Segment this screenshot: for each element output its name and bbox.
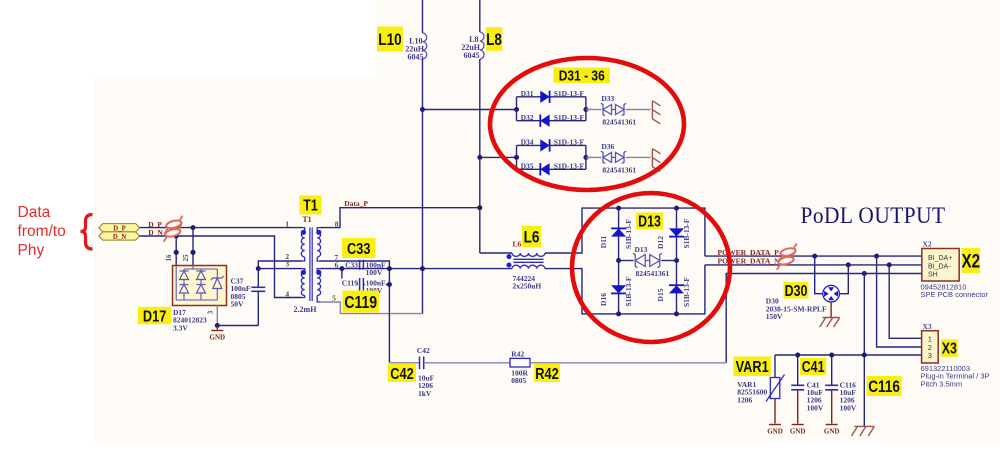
svg-text:X2: X2	[923, 240, 932, 249]
inductor L10	[423, 33, 427, 59]
svg-text:50V: 50V	[231, 300, 245, 309]
connector X3 box	[922, 331, 939, 363]
svg-text:C116: C116	[868, 378, 900, 397]
wire	[530, 362, 726, 364]
node junction	[387, 282, 392, 287]
wire pin7	[320, 261, 390, 363]
svg-text:L6: L6	[524, 228, 540, 247]
wire	[797, 355, 799, 385]
node junction	[829, 353, 834, 358]
node junction	[674, 311, 679, 316]
node junction	[339, 266, 344, 271]
svg-text:100V: 100V	[366, 268, 383, 277]
wire pin3	[258, 268, 302, 270]
node junction	[874, 254, 879, 259]
svg-text:16: 16	[165, 254, 173, 262]
svg-text:R42: R42	[511, 349, 524, 358]
wire to X3 pin 2	[877, 256, 922, 347]
red ellipse D31-36	[490, 58, 684, 190]
wire POWER_DATA_N	[705, 264, 922, 266]
ground GND	[769, 424, 781, 426]
connector flag D_P	[99, 224, 140, 232]
svg-text:Data_P: Data_P	[344, 199, 368, 208]
D17 internal diode	[180, 285, 189, 294]
wire	[216, 326, 218, 330]
label D17	[138, 307, 171, 324]
svg-text:T1: T1	[303, 196, 318, 214]
node junction	[583, 155, 588, 160]
svg-text:VAR1: VAR1	[736, 359, 769, 377]
label L8	[486, 27, 503, 51]
D17 internal zener diode	[213, 278, 222, 289]
svg-text:Phy: Phy	[18, 242, 45, 259]
label X3	[941, 339, 958, 357]
wire right rail	[676, 208, 678, 314]
wire D_N	[140, 236, 303, 298]
label R42	[534, 364, 560, 382]
wire	[863, 274, 865, 427]
pin 3 wire	[216, 306, 218, 326]
svg-text:L6: L6	[513, 240, 522, 249]
diode D32	[540, 115, 549, 127]
svg-text:C42: C42	[390, 366, 413, 384]
chassis ground	[823, 317, 840, 319]
polarity dot	[507, 254, 512, 259]
svg-text:GND: GND	[824, 428, 840, 436]
svg-text:S1D-13-F: S1D-13-F	[554, 89, 585, 98]
capacitor C42	[419, 357, 421, 370]
svg-text:824541361: 824541361	[602, 118, 636, 127]
svg-text:1206: 1206	[737, 395, 752, 404]
svg-text:C33: C33	[347, 241, 370, 259]
twisted pair marker	[161, 224, 185, 242]
polarity dot	[507, 263, 512, 268]
wire	[389, 362, 419, 364]
diode D15	[669, 285, 684, 293]
node junction	[420, 266, 425, 271]
node junction	[215, 323, 220, 328]
wire loop rails	[516, 145, 518, 169]
wire	[586, 109, 602, 111]
wire POWER_DATA_P	[705, 255, 922, 257]
node junction	[616, 258, 621, 263]
transformer T1	[302, 228, 305, 232]
svg-text:C33: C33	[345, 260, 358, 269]
svg-text:GND: GND	[790, 428, 806, 436]
svg-text:T1: T1	[302, 215, 311, 224]
label L10	[377, 27, 403, 52]
wire pin5 jog	[320, 302, 423, 314]
svg-text:D30: D30	[785, 281, 808, 299]
wire loop rails	[516, 97, 518, 121]
svg-text:X3: X3	[923, 322, 932, 331]
ground GND	[211, 330, 223, 332]
node junction	[862, 271, 867, 276]
node junction	[846, 262, 851, 267]
chassis ground	[651, 101, 653, 119]
svg-text:D13: D13	[638, 212, 661, 230]
svg-text:S1B-13-F: S1B-13-F	[682, 277, 691, 307]
polarity dot	[301, 270, 306, 275]
svg-text:1kV: 1kV	[418, 389, 432, 398]
inductor L8	[480, 32, 484, 59]
D17 internal wires	[175, 266, 177, 301]
D17 internal diode	[180, 271, 189, 280]
node junction	[256, 266, 261, 271]
twisted pair marker	[776, 243, 800, 261]
chassis ground	[651, 149, 653, 167]
svg-text:S1D-13-F: S1D-13-F	[554, 162, 585, 171]
node junction	[616, 311, 621, 316]
wire	[830, 302, 832, 318]
chassis ground	[854, 425, 874, 427]
wire	[831, 355, 833, 385]
label D13	[636, 213, 663, 230]
resistor R42	[510, 358, 530, 367]
label C119	[343, 291, 380, 313]
svg-text:6045: 6045	[464, 51, 480, 60]
diode D11	[611, 228, 626, 236]
wire	[839, 265, 848, 294]
twisted pair marker	[774, 252, 798, 270]
red brace	[81, 215, 93, 250]
wire pin8 / Data_P	[320, 208, 480, 228]
wire	[257, 269, 259, 287]
svg-text:PoDL OUTPUT: PoDL OUTPUT	[801, 202, 946, 228]
pin dot 2/5	[190, 250, 195, 255]
svg-text:150V: 150V	[766, 312, 783, 321]
svg-text:C42: C42	[417, 346, 430, 355]
wire	[479, 0, 481, 32]
node junction	[387, 266, 392, 271]
svg-text:100V: 100V	[807, 403, 824, 412]
wire	[422, 0, 424, 33]
red ellipse D13	[572, 193, 730, 342]
svg-text:L10: L10	[378, 31, 401, 50]
TVS diode D33	[603, 105, 612, 115]
svg-text:D32: D32	[521, 113, 534, 122]
wire	[626, 109, 651, 111]
svg-text:R42: R42	[535, 366, 558, 384]
svg-text:D31 - 36: D31 - 36	[559, 67, 605, 84]
node junction L8 feed	[477, 155, 482, 160]
node junction	[812, 254, 817, 259]
svg-text:GND: GND	[767, 428, 783, 436]
svg-text:824541361: 824541361	[602, 165, 636, 174]
svg-text:4: 4	[285, 290, 289, 299]
svg-text:D36: D36	[601, 142, 614, 151]
pin dot 1/6	[174, 250, 179, 255]
diode D34	[540, 139, 549, 151]
svg-text:SPE PCB connector: SPE PCB connector	[921, 290, 989, 299]
wire left rail	[618, 208, 620, 314]
wire	[797, 390, 799, 424]
D17 internal diode	[197, 271, 206, 280]
label D30	[784, 282, 809, 299]
schematic background	[375, 0, 1000, 443]
wire	[424, 362, 510, 364]
svg-text:S1B-13-F: S1B-13-F	[624, 276, 633, 306]
polarity dot	[316, 230, 321, 235]
choke core	[514, 258, 544, 260]
diode D35	[540, 163, 549, 175]
node junction L10 feed	[420, 107, 425, 112]
connector X2 box	[922, 249, 959, 282]
TVS diode D36	[603, 152, 612, 162]
choke L6 bottom winding	[512, 265, 545, 268]
wire SH	[726, 274, 922, 363]
wire	[479, 59, 481, 253]
node junction	[795, 353, 800, 358]
polarity dot	[301, 230, 306, 235]
svg-text:3: 3	[285, 260, 289, 269]
svg-text:GND: GND	[210, 334, 226, 342]
wire	[626, 156, 651, 158]
label C41	[800, 358, 826, 375]
wire	[175, 236, 177, 266]
node junction	[174, 234, 179, 239]
wire D_P	[140, 227, 303, 229]
svg-text:D17: D17	[143, 308, 166, 326]
wire	[422, 59, 424, 314]
svg-text:S1B-13-F: S1B-13-F	[682, 218, 691, 248]
svg-text:25: 25	[182, 254, 190, 262]
svg-text:D34: D34	[521, 138, 534, 147]
diode D12	[669, 228, 684, 236]
ESD array D17 box	[173, 266, 227, 306]
wire	[815, 256, 823, 294]
node junction	[191, 225, 196, 230]
svg-text:100V: 100V	[840, 403, 857, 412]
svg-text:SH: SH	[928, 272, 938, 279]
svg-text:3.3V: 3.3V	[173, 323, 188, 332]
wire ground rail	[775, 354, 922, 356]
svg-text:D35: D35	[521, 162, 534, 171]
node junction	[887, 262, 892, 267]
wire	[192, 228, 194, 266]
wire L6 top to bridge	[545, 208, 619, 253]
svg-text:D33: D33	[601, 94, 614, 103]
svg-text:S1B-13-F: S1B-13-F	[624, 219, 633, 249]
node junction	[477, 205, 482, 210]
wire	[217, 325, 258, 327]
wire	[342, 269, 358, 285]
svg-text:S1D-13-F: S1D-13-F	[554, 113, 585, 122]
wire	[423, 109, 517, 111]
svg-text:C119: C119	[342, 278, 359, 287]
svg-text:D12: D12	[656, 236, 665, 249]
svg-text:824541361: 824541361	[636, 269, 670, 278]
wire	[480, 156, 517, 158]
ground GND	[826, 424, 838, 426]
label D31-36	[554, 68, 611, 84]
svg-text:3: 3	[206, 310, 214, 314]
wire	[774, 355, 776, 378]
wire	[586, 156, 602, 158]
ground GND	[792, 424, 804, 426]
varistor VAR1	[770, 378, 780, 399]
label C33	[342, 238, 376, 258]
svg-text:3: 3	[928, 351, 932, 360]
label X2	[962, 248, 981, 273]
svg-text:S1D-13-F: S1D-13-F	[554, 138, 585, 147]
svg-text:2x250uH: 2x250uH	[513, 282, 542, 291]
svg-text:from/to: from/to	[18, 223, 66, 240]
diode D16	[611, 285, 626, 293]
node junction	[616, 206, 621, 211]
svg-text:D16: D16	[599, 293, 608, 306]
TVS diode D13	[619, 260, 634, 262]
node junction	[674, 258, 679, 263]
node junction	[583, 107, 588, 112]
svg-text:BI_DA+: BI_DA+	[928, 255, 952, 262]
wire	[774, 399, 776, 424]
capacitor C41	[791, 384, 804, 386]
D17 internal diode	[197, 285, 206, 294]
svg-text:D11: D11	[599, 236, 608, 249]
svg-text:C41: C41	[802, 358, 825, 376]
svg-text:Data: Data	[18, 204, 51, 221]
svg-text:0805: 0805	[511, 376, 526, 385]
wire	[831, 390, 833, 424]
wire	[363, 284, 389, 286]
choke L6 top winding	[512, 253, 545, 256]
svg-text:L8: L8	[486, 31, 502, 50]
polarity dot	[316, 270, 321, 275]
svg-text:X3: X3	[942, 339, 957, 357]
node junction	[674, 206, 679, 211]
capacitor C119	[359, 278, 361, 291]
wire to X3 pin 1	[889, 265, 921, 338]
wire top rail	[619, 208, 705, 256]
svg-text:D_N: D_N	[113, 234, 126, 241]
wire pin6 long wire to L6	[320, 268, 512, 270]
svg-text:X2: X2	[961, 250, 980, 272]
svg-text:D13: D13	[635, 245, 648, 254]
connector flag D_N	[99, 232, 140, 240]
svg-text:C119: C119	[344, 293, 377, 312]
label T1	[300, 196, 322, 215]
arrester D30	[823, 285, 840, 302]
svg-text:D15: D15	[656, 288, 665, 301]
svg-text:6045: 6045	[408, 52, 424, 61]
node junction	[514, 107, 519, 112]
capacitor C116	[825, 384, 838, 386]
capacitor C37	[251, 286, 265, 288]
capacitor C33	[359, 260, 361, 270]
svg-text:5: 5	[332, 294, 336, 303]
wire bottom rail	[619, 265, 705, 314]
node junction	[862, 353, 867, 358]
svg-text:1: 1	[285, 220, 289, 229]
diode D31	[540, 91, 549, 103]
svg-text:D31: D31	[521, 89, 534, 98]
wire pin2 jog	[258, 261, 302, 269]
label C42	[388, 364, 416, 382]
wire	[480, 252, 512, 254]
wire L6 bottom to bridge	[545, 269, 619, 314]
label C116	[867, 376, 902, 396]
svg-text:2.2mH: 2.2mH	[294, 305, 318, 314]
svg-text:BI_DA-: BI_DA-	[928, 263, 951, 270]
svg-text:Pitch 3.5mm: Pitch 3.5mm	[921, 379, 963, 388]
svg-text:POWER_DATA_N: POWER_DATA_N	[718, 257, 781, 266]
label VAR1	[733, 357, 771, 377]
twisted pair marker	[162, 216, 186, 234]
node junction	[514, 155, 519, 160]
label L6	[522, 226, 541, 247]
